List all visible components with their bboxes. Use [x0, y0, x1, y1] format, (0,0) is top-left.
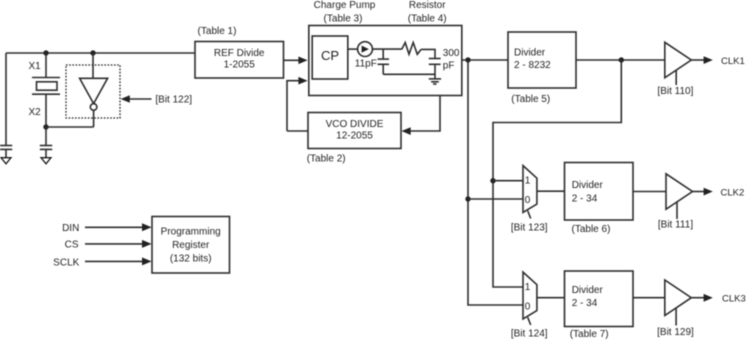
label (Table 1) — [198, 26, 237, 37]
wire X2 to inverter output — [46, 126, 94, 128]
svg-text:X2: X2 — [29, 107, 42, 118]
label CLK3 — [722, 294, 746, 305]
label [Bit 111] — [658, 219, 693, 230]
buffer CLK1 — [665, 42, 692, 78]
wire feedback arrow into PLL — [287, 77, 308, 131]
wire mux2 select tick — [528, 317, 531, 325]
resistor R1 — [402, 43, 421, 55]
svg-text:(Table 4): (Table 4) — [408, 13, 447, 24]
mux MUX2 — [523, 272, 537, 319]
label (Table 7) — [570, 329, 609, 340]
svg-text:Divider: Divider — [514, 47, 546, 58]
node CLK1 branch junction — [619, 57, 624, 62]
wire buffer2 enable tick — [676, 202, 678, 219]
wire REF Divide output arrow — [284, 57, 308, 65]
node X1 junction — [43, 50, 48, 55]
wire mux1 zero-input — [468, 198, 523, 200]
label CLK1 — [721, 56, 745, 67]
wire CLK2 output arrow — [693, 188, 713, 196]
svg-text:CS: CS — [65, 240, 79, 251]
wire mux2 output — [537, 297, 565, 299]
wire divider5 output — [576, 59, 665, 61]
svg-text:300: 300 — [443, 48, 460, 59]
dashed box oscillator enable — [66, 65, 120, 118]
svg-text:Divider: Divider — [572, 285, 604, 296]
wire left load-cap branch — [5, 53, 7, 145]
arrow Bit122 pointer — [121, 95, 152, 103]
label [Bit 124] — [511, 329, 548, 340]
current source I1 — [358, 42, 373, 57]
label (Table 2) — [307, 154, 346, 165]
wire CP to current source — [348, 48, 358, 50]
svg-text:X1: X1 — [29, 61, 42, 72]
svg-text:[Bit 123]: [Bit 123] — [511, 222, 548, 233]
svg-text:[Bit 110]: [Bit 110] — [657, 86, 693, 97]
svg-text:2 - 34: 2 - 34 — [572, 298, 598, 309]
svg-text:CLK3: CLK3 — [722, 294, 746, 305]
block PLL loop filter box — [309, 26, 462, 96]
svg-text:CLK1: CLK1 — [721, 56, 745, 67]
label X1 — [29, 61, 42, 72]
wire crystal bottom lead — [45, 94, 47, 127]
svg-text:SCLK: SCLK — [53, 257, 79, 268]
wire mux1 output — [537, 190, 565, 192]
svg-text:11pF: 11pF — [355, 59, 377, 70]
svg-text:VCO DIVIDE: VCO DIVIDE — [326, 119, 384, 130]
ground arrow (right) — [41, 158, 51, 164]
capacitor load C (right) — [40, 127, 52, 158]
crystal Y1 — [32, 78, 60, 95]
label 11pF — [355, 59, 377, 70]
ground earth symbol — [429, 79, 441, 84]
mux MUX1 — [523, 166, 537, 213]
svg-text:Register: Register — [172, 240, 210, 251]
svg-text:(Table 7): (Table 7) — [570, 329, 609, 340]
label CS — [65, 240, 79, 251]
block Programming Register — [152, 217, 230, 274]
wire SCLK arrow — [85, 257, 152, 265]
wire inverter output — [93, 110, 95, 127]
capacitor C2 300pF — [429, 59, 441, 79]
svg-text:1: 1 — [525, 176, 531, 187]
svg-text:1: 1 — [525, 282, 531, 293]
svg-text:0: 0 — [525, 195, 531, 206]
label X2 — [29, 107, 42, 118]
block Divider 2-34 (CLK2) — [565, 163, 634, 221]
wire CLK3 output arrow — [691, 294, 713, 302]
wire buffer1 enable tick — [675, 71, 677, 86]
svg-text:DIN: DIN — [62, 223, 79, 234]
svg-text:Programming: Programming — [161, 226, 221, 237]
svg-text:(Table 5): (Table 5) — [511, 94, 550, 105]
wire CLK1 output arrow — [691, 56, 713, 64]
svg-text:CP: CP — [321, 48, 339, 63]
wire divider7 output — [633, 297, 665, 299]
svg-text:REF Divide: REF Divide — [214, 48, 265, 59]
label DIN — [62, 223, 79, 234]
block CP charge pump — [312, 36, 348, 79]
wire mux1 one-input — [493, 180, 523, 182]
svg-text:CLK2: CLK2 — [721, 187, 745, 198]
wire mux1 select tick — [528, 211, 531, 219]
wire buffer3 enable tick — [675, 309, 677, 326]
svg-text:2 - 34: 2 - 34 — [572, 193, 598, 204]
node mux1 zero-input junction — [465, 196, 470, 201]
buffer CLK3 — [665, 280, 692, 316]
wire DIN arrow — [85, 223, 152, 231]
wire VCO feedback down — [402, 96, 441, 136]
block VCO DIVIDE — [308, 113, 401, 149]
svg-text:Divider: Divider — [572, 180, 604, 191]
svg-text:[Bit 124]: [Bit 124] — [511, 329, 548, 340]
buffer CLK2 — [666, 174, 693, 210]
block REF Divide — [195, 42, 284, 79]
wire inverter input — [92, 53, 94, 78]
label [Bit 110] — [657, 86, 693, 97]
label [Bit 123] — [511, 222, 548, 233]
node inverter input junction — [90, 50, 95, 55]
label (Table 6) — [572, 224, 611, 235]
svg-text:[Bit 129]: [Bit 129] — [657, 327, 694, 338]
svg-text:[Bit 122]: [Bit 122] — [155, 94, 192, 105]
label [Bit 122] — [155, 94, 192, 105]
capacitor C1 11pF — [378, 59, 389, 74]
wire CLK1 tap down to mux 1-inputs — [493, 60, 621, 287]
svg-text:[Bit 111]: [Bit 111] — [658, 219, 693, 230]
svg-text:12-2055: 12-2055 — [336, 131, 373, 142]
svg-text:0: 0 — [525, 302, 531, 313]
svg-text:1-2055: 1-2055 — [224, 60, 256, 71]
node PLL output junction — [465, 57, 470, 62]
wire PLL output — [462, 59, 508, 61]
wire crystal top lead — [45, 53, 47, 77]
svg-text:(Table 6): (Table 6) — [572, 224, 611, 235]
svg-text:Resistor: Resistor — [409, 0, 446, 11]
wire VCO tap down to mux 0-inputs — [468, 60, 523, 305]
svg-text:(Table 3): (Table 3) — [324, 13, 363, 24]
label Resistor — [408, 0, 447, 24]
ground arrow (left) — [1, 158, 11, 164]
svg-text:(Table 1): (Table 1) — [198, 26, 237, 37]
wire divider6 output — [633, 191, 666, 193]
wire resistor to 300pF — [421, 49, 435, 58]
inverter U1 — [80, 78, 108, 110]
wire XIN top rail — [6, 52, 195, 54]
svg-text:2 - 8232: 2 - 8232 — [514, 60, 551, 71]
wire VCO DIVIDE output — [287, 130, 308, 132]
label SCLK — [53, 257, 79, 268]
block Divider 2-8232 — [508, 32, 576, 88]
svg-text:Charge Pump: Charge Pump — [314, 0, 376, 11]
wire 11pF tap — [382, 49, 384, 59]
label Charge Pump — [314, 0, 376, 24]
wire filter bottom rail — [383, 73, 435, 75]
label 300 pF — [443, 48, 460, 71]
node X2 junction — [43, 124, 48, 129]
block Divider 2-34 (CLK3) — [565, 271, 634, 327]
svg-text:(132 bits): (132 bits) — [170, 253, 212, 264]
node mux1 one-input junction — [490, 178, 495, 183]
label CLK2 — [721, 187, 745, 198]
label (Table 5) — [511, 94, 550, 105]
label [Bit 129] — [657, 327, 694, 338]
svg-text:(Table 2): (Table 2) — [307, 154, 346, 165]
wire current source to resistor — [372, 48, 401, 50]
wire CS arrow — [85, 240, 152, 248]
svg-text:pF: pF — [443, 61, 455, 72]
capacitor load C (left) — [0, 146, 12, 159]
